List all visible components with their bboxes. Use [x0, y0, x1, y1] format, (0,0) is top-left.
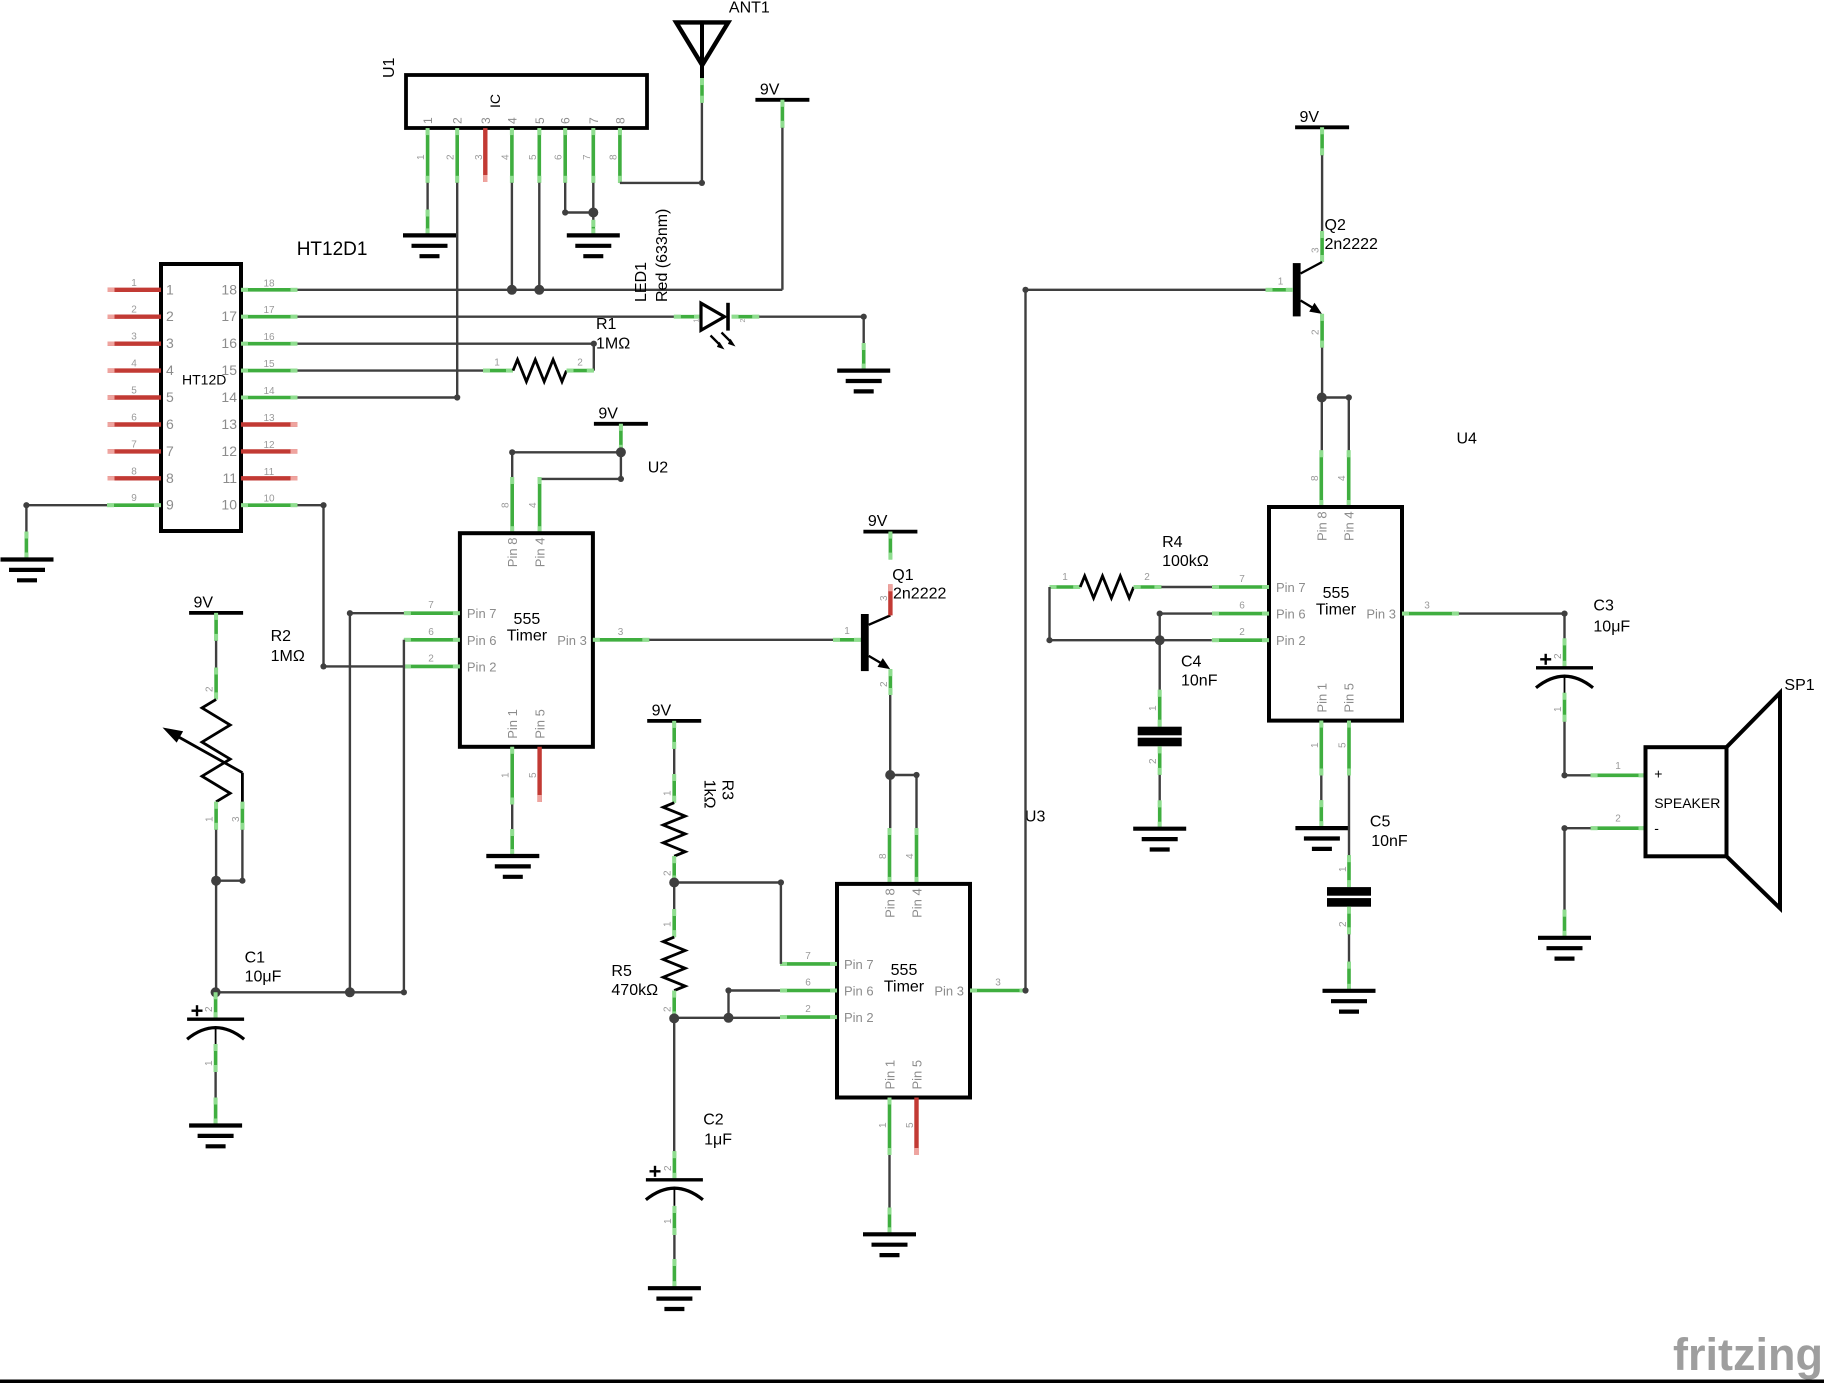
U2 left pin leads	[404, 600, 460, 666]
wire R5 junction to U3 pin2	[674, 1013, 780, 1023]
junction 9V/U2	[616, 447, 626, 457]
svg-text:1: 1	[663, 790, 674, 796]
U3 pin1 to ground	[878, 1098, 890, 1235]
wire R5 junction to C2	[673, 1018, 675, 1151]
svg-text:555: 555	[891, 962, 918, 979]
svg-text:Pin 4: Pin 4	[1342, 511, 1357, 541]
wire U2 pin7 down-left	[345, 610, 404, 997]
wire 9V to R2 pin2	[215, 641, 217, 668]
svg-text:470kΩ: 470kΩ	[611, 982, 658, 999]
svg-text:8: 8	[166, 470, 174, 486]
fritzing logo	[1673, 1329, 1823, 1380]
svg-text:6: 6	[166, 416, 174, 432]
U1 pin 3 red stub	[474, 128, 486, 182]
svg-text:7: 7	[587, 117, 601, 124]
HT12D1 decoder IC box	[161, 239, 367, 531]
svg-text:C4: C4	[1181, 654, 1202, 671]
svg-text:R2: R2	[271, 628, 292, 645]
svg-text:1: 1	[1553, 706, 1564, 712]
svg-text:9V: 9V	[1300, 109, 1320, 126]
svg-text:6: 6	[554, 154, 565, 160]
svg-text:Pin 3: Pin 3	[557, 633, 587, 648]
svg-text:2: 2	[740, 319, 747, 323]
svg-text:Pin 8: Pin 8	[882, 888, 897, 918]
svg-text:4: 4	[905, 853, 916, 859]
svg-text:Pin 1: Pin 1	[882, 1060, 897, 1090]
svg-text:10nF: 10nF	[1181, 673, 1218, 690]
U4 top pin leads	[1310, 450, 1349, 507]
svg-text:2: 2	[577, 357, 583, 368]
svg-text:SPEAKER: SPEAKER	[1654, 795, 1720, 811]
svg-text:1: 1	[1310, 742, 1321, 748]
svg-text:1: 1	[416, 154, 427, 160]
svg-text:2: 2	[1144, 572, 1150, 583]
svg-text:100kΩ: 100kΩ	[1162, 553, 1209, 570]
svg-text:1: 1	[166, 281, 174, 297]
svg-text:3: 3	[995, 978, 1001, 989]
resistor R5 470kOhm	[611, 883, 685, 1019]
svg-text:8: 8	[613, 117, 627, 124]
U2 pin1 to ground	[501, 747, 513, 856]
svg-text:8: 8	[1310, 475, 1321, 481]
ground at far left	[1, 560, 54, 581]
svg-text:8: 8	[131, 466, 137, 477]
svg-text:4: 4	[505, 117, 519, 124]
svg-text:1μF: 1μF	[704, 1132, 732, 1149]
wire 9V to U2 pin4	[540, 452, 624, 482]
svg-text:1: 1	[1615, 761, 1621, 772]
U2 pin5 red stub	[528, 747, 540, 802]
svg-text:3: 3	[479, 117, 493, 124]
U2 pin3 lead and wire to Q1 base	[593, 627, 833, 640]
svg-text:Pin 4: Pin 4	[910, 888, 925, 918]
svg-text:10: 10	[263, 494, 275, 505]
svg-text:15: 15	[221, 362, 237, 378]
svg-text:Pin 3: Pin 3	[934, 984, 964, 999]
svg-text:1: 1	[663, 1218, 674, 1224]
svg-text:Pin 2: Pin 2	[467, 659, 497, 674]
potentiometer R2 1MOhm	[163, 628, 305, 830]
svg-text:3: 3	[474, 154, 485, 160]
9V supply (top, VDD rail)	[755, 81, 809, 128]
wire R3 junction to U3 pin7	[674, 879, 784, 964]
wire Q1 emitter down	[885, 695, 895, 780]
svg-text:9V: 9V	[194, 594, 214, 611]
svg-text:U2: U2	[648, 460, 669, 477]
svg-text:12: 12	[221, 443, 237, 459]
svg-text:2: 2	[1148, 758, 1159, 764]
U4 pin3 lead	[1402, 601, 1459, 614]
svg-text:12: 12	[263, 440, 275, 451]
ground below C1	[189, 1126, 242, 1147]
ground below U1 pins6-7	[567, 235, 620, 256]
svg-text:2: 2	[1553, 653, 1564, 659]
U1 pin leads	[428, 128, 620, 183]
svg-text:Pin 5: Pin 5	[1342, 683, 1357, 713]
svg-text:Pin 5: Pin 5	[533, 709, 548, 739]
svg-text:Pin 1: Pin 1	[1314, 683, 1329, 713]
ground below U2 pin1	[486, 856, 539, 877]
svg-text:9V: 9V	[652, 702, 672, 719]
wire junction to U4 pin8	[1321, 398, 1323, 451]
ground below U3 pin1	[863, 1234, 916, 1255]
HT12D pin numbers inside	[166, 281, 237, 512]
svg-text:LED1: LED1	[633, 262, 650, 302]
555 timer U4	[1269, 507, 1402, 721]
svg-text:Pin 6: Pin 6	[467, 633, 497, 648]
svg-text:C1: C1	[245, 950, 266, 967]
svg-text:R1: R1	[596, 316, 617, 333]
U4 pin5 lead to C5	[1338, 721, 1350, 856]
svg-text:Red (633nm): Red (633nm)	[654, 209, 671, 302]
svg-text:2n2222: 2n2222	[893, 586, 946, 603]
wire U1 pin4 to 9V rail	[507, 183, 517, 295]
svg-text:15: 15	[263, 359, 275, 370]
svg-text:16: 16	[263, 332, 275, 343]
svg-text:2: 2	[879, 681, 890, 687]
svg-text:5: 5	[1338, 742, 1349, 748]
wire U4 pin3 to C3	[1459, 611, 1568, 639]
svg-text:2: 2	[1311, 329, 1322, 335]
svg-text:1: 1	[501, 772, 512, 778]
op. 9V supply above U2	[594, 405, 648, 452]
svg-text:U3: U3	[1025, 809, 1046, 826]
wire HT12D pin9 to ground	[23, 502, 107, 559]
wire HT12D pin10 to U2 pin2	[298, 502, 404, 669]
wire U2 pin6 down	[216, 640, 407, 996]
wire LED1 cathode to ground	[759, 314, 867, 371]
svg-text:Timer: Timer	[1316, 602, 1357, 619]
svg-text:3: 3	[618, 627, 624, 638]
svg-text:18: 18	[221, 281, 237, 297]
svg-text:1: 1	[1338, 866, 1349, 872]
svg-text:9: 9	[131, 493, 137, 504]
U2 label	[648, 460, 669, 477]
capacitor C1 10uF	[187, 950, 282, 1126]
wire junction to U3 pin6	[725, 987, 780, 1017]
wire U1 pin7 to ground	[592, 183, 594, 236]
svg-text:555: 555	[1323, 585, 1350, 602]
wire U1 pin8 to antenna	[620, 103, 705, 186]
transistor Q2 2n2222	[1266, 217, 1378, 348]
svg-text:1: 1	[694, 319, 701, 323]
555 timer U3	[837, 884, 970, 1098]
svg-text:Pin 7: Pin 7	[1276, 580, 1306, 595]
svg-text:10nF: 10nF	[1371, 833, 1408, 850]
svg-text:10: 10	[221, 497, 237, 513]
wire C3 to speaker +	[1561, 722, 1590, 779]
svg-text:3: 3	[1311, 247, 1322, 253]
svg-text:C5: C5	[1370, 814, 1391, 831]
svg-text:1MΩ: 1MΩ	[596, 336, 630, 353]
svg-text:Pin 4: Pin 4	[533, 538, 548, 568]
U3 left pin leads	[780, 951, 837, 1017]
svg-text:1: 1	[494, 357, 500, 368]
wire R2 wiper to bottom	[211, 830, 245, 886]
svg-text:1: 1	[1148, 705, 1159, 711]
svg-text:3: 3	[879, 595, 890, 601]
svg-text:R5: R5	[611, 963, 632, 980]
svg-text:6: 6	[1239, 601, 1245, 612]
svg-text:HT12D: HT12D	[182, 372, 226, 388]
U3 label	[1025, 809, 1046, 826]
svg-text:1: 1	[205, 816, 216, 822]
svg-text:U4: U4	[1457, 431, 1478, 448]
svg-text:1MΩ: 1MΩ	[271, 648, 305, 665]
svg-text:6: 6	[131, 413, 137, 424]
svg-text:Pin 2: Pin 2	[1276, 633, 1306, 648]
svg-text:8: 8	[608, 154, 619, 160]
svg-text:2: 2	[446, 154, 457, 160]
svg-text:10μF: 10μF	[245, 969, 282, 986]
svg-text:Pin 7: Pin 7	[844, 957, 874, 972]
svg-text:10μF: 10μF	[1593, 619, 1630, 636]
svg-text:ANT1: ANT1	[729, 0, 770, 17]
wire junction to U4 pin4	[1322, 394, 1352, 450]
wire junction to U3 pin4	[890, 772, 919, 828]
svg-text:5: 5	[528, 772, 539, 778]
wire Q2 emitter down	[1317, 348, 1327, 403]
svg-text:Pin 8: Pin 8	[505, 538, 520, 568]
wire HT12D pin16 to R1 pin2	[298, 341, 597, 371]
svg-text:Pin 5: Pin 5	[910, 1060, 925, 1090]
wire junction to C4	[1158, 640, 1160, 690]
svg-text:18: 18	[263, 278, 275, 289]
capacitor C4 10nF	[1138, 654, 1218, 829]
svg-text:6: 6	[428, 627, 434, 638]
9V supply above R3	[647, 702, 701, 749]
wire U1 pin1 to ground	[426, 183, 428, 236]
svg-text:1: 1	[844, 626, 850, 637]
svg-text:2: 2	[1615, 814, 1621, 825]
svg-text:Pin 6: Pin 6	[844, 984, 874, 999]
svg-text:2: 2	[428, 653, 434, 664]
svg-text:555: 555	[514, 611, 541, 628]
U4 label	[1457, 431, 1478, 448]
ground below C4	[1133, 829, 1186, 850]
svg-text:5: 5	[528, 154, 539, 160]
wire U1 pin6 to pin7 junction	[562, 183, 598, 218]
svg-text:Timer: Timer	[884, 978, 925, 995]
9V supply above R2	[189, 594, 243, 641]
svg-text:2: 2	[805, 1004, 811, 1015]
svg-text:4: 4	[528, 502, 539, 508]
svg-text:7: 7	[131, 439, 137, 450]
svg-text:11: 11	[264, 467, 275, 478]
U1 receiver IC box	[381, 57, 647, 128]
svg-text:2: 2	[166, 308, 174, 324]
svg-text:R4: R4	[1162, 534, 1183, 551]
svg-text:6: 6	[805, 978, 811, 989]
svg-text:2: 2	[1338, 921, 1349, 927]
svg-text:2: 2	[204, 1006, 215, 1012]
HT12D address pins 1-8 red stubs	[108, 278, 162, 479]
svg-text:1: 1	[1278, 276, 1284, 287]
svg-text:7: 7	[1239, 574, 1245, 585]
svg-text:3: 3	[166, 335, 174, 351]
wire 9V to VDD rail	[781, 128, 783, 290]
svg-text:3: 3	[231, 816, 242, 822]
wire 9V to Q2 collector	[1321, 155, 1323, 231]
capacitor C2 1uF	[646, 1112, 732, 1289]
svg-text:5: 5	[131, 386, 137, 397]
wire junction to U4 pin6	[1157, 611, 1212, 641]
ground below C2	[648, 1288, 701, 1309]
svg-text:7: 7	[428, 600, 434, 611]
HT12D data pins 13-11 red stubs	[241, 413, 298, 478]
wire U1 pin5 to 9V rail	[534, 183, 544, 295]
ground below speaker	[1538, 938, 1591, 959]
555 timer U2	[460, 533, 593, 747]
wire R4 to U4 pin7	[1161, 586, 1212, 588]
HT12D pin9 lead	[107, 493, 161, 505]
ground below C5	[1323, 991, 1376, 1012]
svg-text:2: 2	[663, 1006, 674, 1012]
U1 pin numbers	[416, 117, 627, 160]
svg-text:1: 1	[1062, 572, 1068, 583]
resistor R3 1kOhm	[663, 774, 736, 883]
transistor Q1 2n2222	[833, 567, 946, 695]
svg-text:5: 5	[166, 389, 174, 405]
wire HT12D pin17 to LED1	[298, 316, 674, 318]
svg-text:4: 4	[166, 362, 174, 378]
wire 9V to U2 pin8	[509, 449, 621, 477]
wire U1 pin2 to HT12D pin14	[298, 183, 461, 401]
U4 pin1 to ground	[1310, 721, 1322, 829]
svg-text:R3: R3	[719, 780, 736, 801]
svg-text:Pin 6: Pin 6	[1276, 607, 1306, 622]
wire R4 pin1 loop	[1046, 587, 1211, 645]
svg-text:Q2: Q2	[1325, 217, 1346, 234]
svg-text:Q1: Q1	[892, 567, 913, 584]
svg-text:3: 3	[131, 332, 137, 343]
LED1 red	[633, 209, 759, 350]
capacitor C3 10uF	[1536, 598, 1630, 722]
svg-text:8: 8	[878, 853, 889, 859]
bottom border line	[0, 1380, 1824, 1383]
svg-text:2: 2	[663, 870, 674, 876]
svg-text:5: 5	[905, 1122, 916, 1128]
wire speaker - to ground	[1561, 825, 1590, 938]
U3 pin5 red stub	[905, 1098, 917, 1156]
svg-text:2: 2	[205, 686, 216, 692]
svg-text:1: 1	[878, 1122, 889, 1128]
svg-text:IC: IC	[487, 94, 503, 108]
svg-text:Pin 2: Pin 2	[844, 1010, 874, 1025]
U2 top pin leads	[501, 477, 540, 533]
svg-text:-: -	[1654, 820, 1659, 836]
svg-text:11: 11	[222, 470, 237, 486]
wire R2 bottom to C1	[211, 830, 221, 998]
antenna ANT1	[676, 0, 770, 103]
svg-text:4: 4	[500, 154, 511, 160]
speaker SP1	[1591, 677, 1815, 908]
ground below U1 pin1	[403, 235, 456, 256]
svg-text:U1: U1	[381, 57, 398, 78]
svg-text:Pin 8: Pin 8	[1314, 511, 1329, 541]
wire HT12D pin15 to R1 pin1	[298, 369, 484, 371]
svg-text:1: 1	[131, 278, 137, 289]
svg-text:Pin 1: Pin 1	[505, 709, 520, 739]
svg-text:2: 2	[131, 305, 137, 316]
junction R5/C2	[669, 1013, 679, 1023]
svg-text:fritzing: fritzing	[1673, 1329, 1823, 1380]
svg-text:1kΩ: 1kΩ	[701, 780, 718, 809]
svg-text:7: 7	[166, 443, 174, 459]
svg-text:16: 16	[221, 335, 237, 351]
resistor R4 100kOhm	[1050, 534, 1209, 598]
wire junction to U3 pin8	[889, 775, 891, 828]
svg-text:13: 13	[221, 416, 237, 432]
wire U3 pin3 to Q2 base	[1022, 287, 1265, 994]
svg-text:2: 2	[451, 117, 465, 124]
svg-text:9V: 9V	[598, 405, 618, 422]
svg-text:Pin 3: Pin 3	[1366, 607, 1396, 622]
U3 top pin leads	[878, 828, 917, 884]
svg-text:2: 2	[1239, 627, 1245, 638]
svg-text:7: 7	[805, 951, 811, 962]
9V supply above Q2	[1295, 109, 1349, 156]
svg-text:9V: 9V	[868, 513, 888, 530]
svg-text:9: 9	[166, 497, 174, 513]
svg-text:1: 1	[421, 117, 435, 124]
svg-text:C3: C3	[1593, 598, 1614, 615]
U4 left pin leads	[1212, 574, 1269, 640]
U3 pin3 lead	[970, 978, 1027, 991]
svg-text:13: 13	[263, 413, 275, 424]
svg-text:1: 1	[204, 1060, 215, 1066]
svg-text:1: 1	[663, 921, 674, 927]
svg-text:4: 4	[131, 359, 137, 370]
svg-text:Pin 7: Pin 7	[467, 606, 497, 621]
svg-text:3: 3	[1424, 601, 1430, 612]
svg-text:2: 2	[663, 1165, 674, 1171]
svg-text:7: 7	[582, 154, 593, 160]
resistor R1 1MOhm	[483, 316, 630, 382]
svg-text:14: 14	[263, 386, 275, 397]
ground below U4 pin1	[1295, 828, 1348, 849]
svg-text:HT12D1: HT12D1	[297, 239, 368, 260]
svg-text:17: 17	[263, 305, 275, 316]
svg-text:6: 6	[559, 117, 573, 124]
wire 9V to R3	[673, 749, 675, 774]
junction R3/R5	[669, 878, 679, 888]
9V supply above Q1	[863, 513, 917, 560]
svg-text:SP1: SP1	[1784, 677, 1814, 694]
svg-text:8: 8	[501, 502, 512, 508]
wire HT12D pin18 (VDD) to 9V rail	[298, 289, 783, 291]
ground below LED1	[837, 371, 890, 392]
svg-text:14: 14	[221, 389, 237, 405]
svg-text:17: 17	[221, 308, 237, 324]
svg-text:2n2222: 2n2222	[1325, 236, 1378, 253]
svg-text:9V: 9V	[760, 81, 780, 98]
svg-text:C2: C2	[703, 1112, 724, 1129]
svg-text:4: 4	[1337, 475, 1348, 481]
svg-text:+: +	[1654, 766, 1662, 782]
svg-text:5: 5	[533, 117, 547, 124]
HT12D right side green leads	[241, 278, 298, 505]
svg-text:Timer: Timer	[507, 628, 548, 645]
capacitor C5 10nF	[1327, 814, 1408, 991]
